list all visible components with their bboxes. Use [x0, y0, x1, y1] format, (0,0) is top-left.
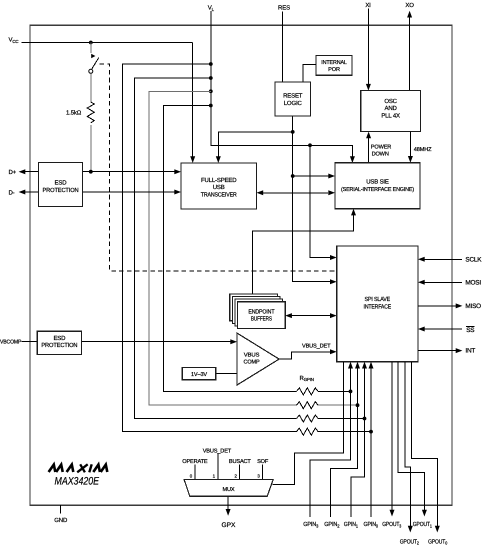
svg-text:GPOUT2: GPOUT2	[400, 538, 420, 545]
wire 48MHz into SIE	[409, 132, 411, 157]
wire POR to reset logic	[303, 65, 316, 82]
svg-text:AND: AND	[384, 105, 397, 112]
svg-text:POWER: POWER	[371, 145, 391, 151]
node GPIN3 junction	[349, 390, 353, 394]
svg-text:RES: RES	[278, 5, 290, 12]
pin GND stub	[60, 505, 62, 513]
full-speed USB transceiver	[181, 163, 257, 209]
svg-text:TRANSCEIVER: TRANSCEIVER	[201, 192, 238, 199]
svg-text:GPOUT3: GPOUT3	[382, 521, 402, 528]
ESD protection U2 (VBCOMP)	[37, 331, 81, 354]
svg-text:GPOUT1: GPOUT1	[413, 521, 433, 528]
chip boundary MAX3420E	[30, 25, 452, 505]
wire 1V-3V reference into comparator	[216, 373, 238, 375]
wire VL branch4 to GPIN3 row	[164, 106, 351, 392]
logo MAXIM	[49, 464, 108, 472]
op-amp VBUS comparator	[237, 333, 279, 385]
wire GPIN3 into SPI and down to pin	[310, 368, 350, 517]
svg-text:VBUS_DET: VBUS_DET	[302, 343, 331, 349]
reset logic box	[275, 82, 311, 116]
svg-text:SPI SLAVE: SPI SLAVE	[365, 296, 391, 303]
svg-text:XO: XO	[405, 2, 414, 9]
wire GPIN2 into SPI and down to pin	[330, 368, 357, 517]
svg-text:VBUS: VBUS	[244, 352, 260, 358]
resistor RGPIN row1	[297, 388, 319, 395]
svg-text:PROTECTION: PROTECTION	[43, 187, 79, 194]
wire VBUS_DET to SPI	[279, 352, 330, 359]
wire RES to reset logic	[282, 12, 284, 83]
node VL dot2	[209, 76, 213, 80]
wire SS	[424, 328, 462, 330]
svg-text:48MHZ: 48MHZ	[414, 147, 432, 153]
svg-text:OSC: OSC	[384, 98, 397, 105]
svg-text:RESET: RESET	[283, 93, 303, 100]
svg-text:GPOUT0: GPOUT0	[428, 538, 448, 545]
node GPIN2 junction	[356, 403, 360, 407]
connect switch	[89, 43, 99, 74]
svg-text:ESD: ESD	[53, 335, 66, 342]
wire reset to SIE left	[293, 175, 329, 177]
ESD protection U1 (D+/D-)	[39, 163, 83, 207]
node VCC-switch junction	[89, 41, 93, 45]
node reset-SIE junction	[291, 174, 295, 178]
svg-text:MAX3420E: MAX3420E	[55, 476, 100, 488]
svg-text:1.5kΩ: 1.5kΩ	[66, 110, 82, 117]
svg-text:ENDPOINT: ENDPOINT	[248, 308, 274, 315]
wire GPOUT3	[391, 362, 393, 510]
svg-text:1V–3V: 1V–3V	[191, 372, 207, 378]
resistor RGPIN row4	[297, 428, 319, 435]
svg-text:MISO: MISO	[465, 303, 481, 310]
wire VL trunk	[211, 11, 353, 157]
wire GPX output	[227, 496, 229, 509]
svg-text:SOF: SOF	[257, 459, 269, 465]
dashed wire SPI to connect switch	[100, 64, 335, 271]
svg-text:SS: SS	[466, 327, 474, 334]
svg-text:MOSI: MOSI	[465, 279, 481, 286]
node GPIN1 junction	[363, 417, 367, 421]
node VL dot1	[209, 62, 213, 66]
wire VL branch2 to GPIN1 row	[134, 78, 364, 419]
svg-text:PROTECTION: PROTECTION	[41, 342, 77, 349]
node VL dot3	[209, 89, 213, 93]
svg-text:LOGIC: LOGIC	[284, 100, 303, 107]
wire reset to transceiver top	[218, 132, 292, 157]
resistor RGPIN row2	[297, 402, 319, 409]
svg-text:OPERATE: OPERATE	[182, 459, 208, 465]
wire SCLK	[424, 258, 462, 260]
wire GPOUT2	[405, 362, 410, 526]
arrow into SIE top from VL	[350, 156, 355, 163]
svg-text:BUFFERS: BUFFERS	[251, 316, 272, 323]
SPI slave interface box	[337, 246, 418, 362]
reference box 1V-3V	[182, 368, 216, 380]
svg-text:USB SIE: USB SIE	[366, 179, 389, 186]
endpoint buffers stack	[230, 294, 285, 329]
wire VBCOMP input	[22, 341, 231, 343]
svg-text:GPX: GPX	[222, 522, 237, 529]
wire GPIN1 into SPI and down to pin	[351, 368, 365, 517]
wire D- bidirectional	[25, 191, 175, 193]
node GPIN0 junction	[369, 430, 373, 434]
svg-text:D-: D-	[9, 189, 15, 196]
wire transceiver-SIE bidirectional	[263, 192, 328, 194]
svg-text:D+: D+	[9, 169, 17, 176]
internal POR box	[316, 56, 352, 76]
svg-text:USB: USB	[213, 184, 225, 191]
wire endpoint buffers to SIE	[253, 215, 354, 294]
wire GPIN0 into SPI and down to pin	[370, 368, 372, 517]
wire endpoint buffers to SPI bidirectional	[292, 315, 331, 317]
resistor RGPIN row3	[297, 415, 319, 422]
wire GPOUT0	[412, 362, 438, 526]
OSC and PLL box	[361, 91, 421, 132]
svg-text:PLL 4X: PLL 4X	[381, 112, 400, 119]
wire mux input stubs	[195, 454, 263, 480]
svg-text:DOWN: DOWN	[372, 151, 389, 157]
node VL-SPI branch junction	[308, 143, 312, 147]
svg-text:ESD: ESD	[55, 180, 68, 187]
node D+ resistor junction	[89, 170, 93, 174]
arrow into transceiver top from VCC	[190, 156, 195, 163]
wire XO out of OSC	[409, 17, 411, 91]
svg-text:(SERIAL-INTERFACE ENGINE): (SERIAL-INTERFACE ENGINE)	[341, 186, 414, 193]
svg-text:VBCOMP: VBCOMP	[0, 340, 22, 346]
svg-text:INTERFACE: INTERFACE	[364, 303, 392, 310]
svg-text:COMP: COMP	[244, 360, 260, 366]
svg-text:XI: XI	[365, 2, 371, 9]
wire MOSI	[424, 281, 462, 283]
USB SIE box	[335, 163, 420, 209]
node VL dot4	[209, 104, 213, 108]
svg-text:INT: INT	[465, 348, 475, 355]
mux trapezoid	[184, 479, 273, 496]
wire VL branch3 to GPIN2 row	[149, 91, 358, 405]
svg-text:INTERNAL: INTERNAL	[321, 60, 347, 66]
wire POWER DOWN up into OSC	[368, 138, 370, 163]
svg-text:MUX: MUX	[223, 487, 235, 493]
wire XI into OSC	[367, 9, 369, 85]
mux select digits 0 1 2 3	[190, 474, 261, 479]
wire VL branch1 to GPIN0 row	[123, 64, 371, 432]
wire RESET logic output trunk	[293, 116, 331, 282]
arrow into VBUS comparator	[230, 339, 237, 344]
svg-text:POR: POR	[328, 67, 340, 73]
wire MUX select from SPI	[273, 362, 344, 485]
svg-text:GND: GND	[54, 517, 68, 524]
svg-text:VBUS_DET: VBUS_DET	[203, 448, 232, 454]
wire GPOUT1	[398, 362, 424, 510]
wire INT	[418, 350, 456, 352]
wire VCC rail	[22, 43, 193, 157]
wire D+ bidirectional	[25, 171, 175, 173]
wire VL branch down to SPI left	[310, 145, 330, 257]
wire MISO	[418, 305, 456, 307]
svg-text:BUSACT: BUSACT	[229, 459, 252, 465]
arrow into SPI left (reset)	[330, 279, 337, 284]
node reset-transceiver junction	[291, 130, 295, 134]
resistor 1.5k pullup	[66, 73, 94, 171]
svg-text:FULL-SPEED: FULL-SPEED	[201, 177, 237, 184]
svg-text:SCLK: SCLK	[465, 256, 482, 263]
